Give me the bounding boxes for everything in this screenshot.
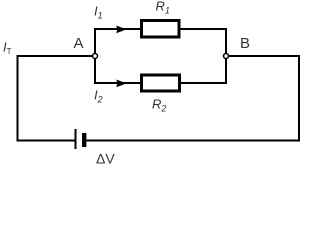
svg-text:I2: I2: [94, 88, 103, 105]
wire: lower branch left segment (y=83): [94, 82, 140, 84]
current arrow I1: [116, 26, 126, 34]
wire: R2 to lower right corner: [181, 82, 227, 84]
wire: bottom left, corner to battery: [17, 140, 75, 142]
wire: right side vertical (x=299): [298, 55, 300, 142]
svg-text:IT: IT: [3, 40, 12, 57]
wire: battery to bottom right corner: [86, 140, 300, 142]
resistor R2: [142, 75, 180, 91]
svg-text:ΔV: ΔV: [96, 151, 115, 165]
svg-text:A: A: [74, 35, 84, 52]
wire: R1 to upper right corner: [181, 28, 228, 30]
svg-text:B: B: [240, 35, 250, 52]
battery (short thick plate): [82, 133, 86, 147]
node A (open junction circle): [93, 54, 98, 59]
wire: node A up to upper branch: [94, 28, 96, 53]
svg-text:R1: R1: [156, 0, 170, 15]
wire: lower right corner up to node B: [225, 59, 227, 84]
wire: node A down to lower branch: [94, 59, 96, 84]
wire: upper right corner down to node B: [225, 28, 227, 53]
node B (open junction circle): [224, 54, 229, 59]
wire: upper branch left segment (y=29): [94, 28, 140, 30]
resistor R1: [142, 21, 180, 38]
current arrow I2: [116, 80, 126, 88]
wire: node B to right edge (horizontal, y=56): [229, 55, 300, 57]
wire: left side vertical (x=17.5): [17, 55, 19, 142]
svg-text:I1: I1: [94, 4, 103, 21]
battery (long thin plate): [75, 129, 77, 149]
svg-text:R2: R2: [152, 97, 166, 114]
wire: node A to left edge (horizontal, y=56): [17, 55, 93, 57]
